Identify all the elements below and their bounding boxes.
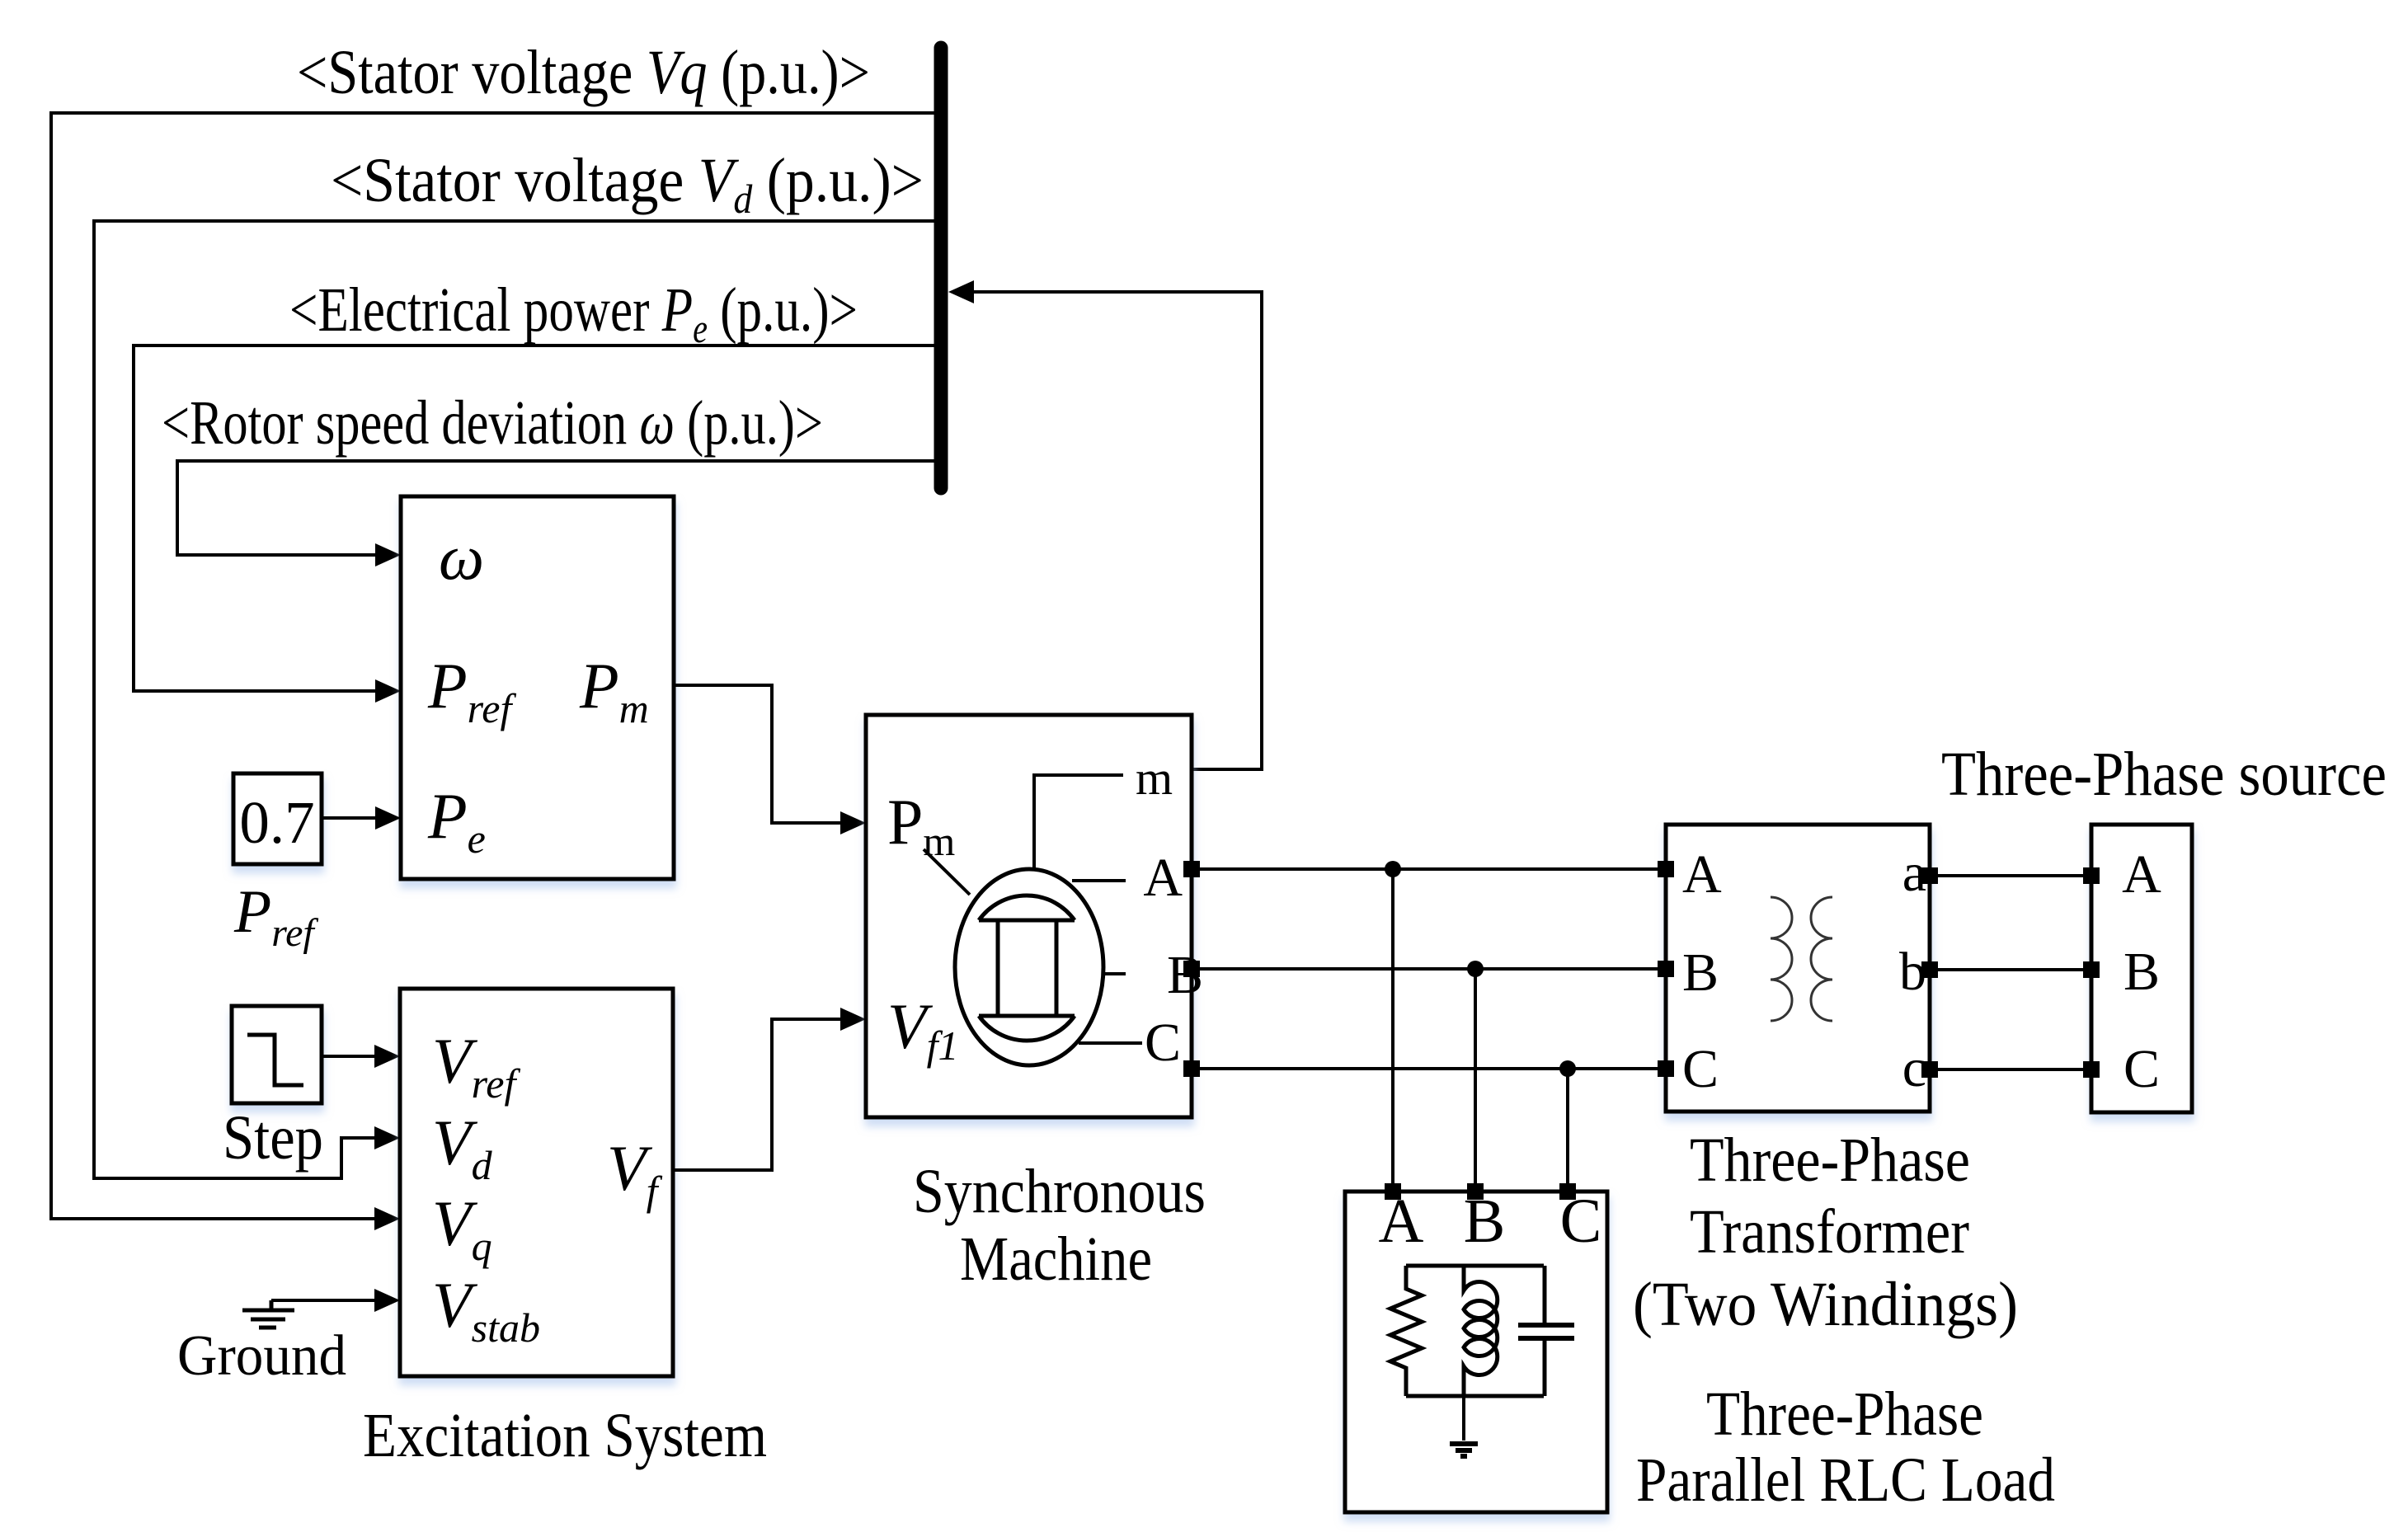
svg-text:Excitation System: Excitation System: [363, 1401, 767, 1470]
arrowhead 0.7 into Pe: [375, 806, 401, 830]
svg-text:Transformer: Transformer: [1690, 1197, 1969, 1267]
ground load symbol: [1450, 1444, 1478, 1456]
svg-text:Synchronous: Synchronous: [913, 1157, 1206, 1226]
svg-text:m: m: [1136, 751, 1173, 805]
svg-text:C: C: [1560, 1187, 1602, 1256]
wire B drop to load: [1474, 969, 1477, 1184]
wire Pe signal: [134, 345, 934, 691]
port square transformer B: [1658, 961, 1674, 977]
port square machine B: [1183, 961, 1200, 977]
resistor R: [1390, 1266, 1422, 1396]
wire Vf to machine Vf1: [673, 1019, 845, 1170]
port square load C: [1559, 1183, 1576, 1200]
synchronous machine block: [866, 715, 1192, 1117]
arrowhead Pm into machine: [840, 811, 866, 834]
wire Vq signal: [51, 113, 934, 1219]
svg-text:Ground: Ground: [177, 1324, 346, 1388]
port square source C: [2083, 1061, 2100, 1078]
port square machine C: [1183, 1060, 1200, 1077]
RLC load block: [1345, 1192, 1607, 1512]
junction C: [1559, 1060, 1576, 1077]
governor block: [401, 496, 674, 879]
svg-text:Three-Phase source: Three-Phase source: [1941, 740, 2387, 809]
svg-text:ω: ω: [439, 521, 484, 593]
svg-text:A: A: [1143, 848, 1183, 908]
svg-text:B: B: [1682, 942, 1719, 1003]
arrowhead Vq into Vq port: [374, 1207, 400, 1230]
port square transformer c: [1921, 1061, 1938, 1078]
svg-text:Parallel RLC Load: Parallel RLC Load: [1636, 1445, 2055, 1515]
wire m feedback to bus: [973, 292, 1262, 769]
port square transformer a: [1921, 867, 1938, 884]
svg-text:A: A: [1682, 844, 1722, 905]
step block: [232, 1006, 322, 1103]
svg-text:(Two Windings): (Two Windings): [1633, 1270, 2018, 1339]
ground symbol: [242, 1300, 294, 1328]
inductor L: [1464, 1266, 1498, 1396]
wire phase A: [1200, 867, 1658, 871]
svg-text:C: C: [2123, 1039, 2160, 1099]
arrowhead Pe into Pref port: [375, 679, 401, 703]
svg-text:B: B: [1464, 1187, 1506, 1256]
port square load A: [1385, 1183, 1401, 1200]
port square transformer b: [1921, 961, 1938, 978]
svg-text:Machine: Machine: [960, 1224, 1152, 1294]
svg-text:Three-Phase: Three-Phase: [1690, 1126, 1970, 1195]
step icon: [247, 1035, 303, 1085]
wire c to source C: [1938, 1068, 2083, 1071]
arrowhead omega into governor: [375, 543, 401, 566]
wire A drop to load: [1391, 869, 1394, 1184]
svg-text:A: A: [2122, 844, 2161, 905]
wire C inside: [1079, 1041, 1142, 1045]
wire Vd signal: [94, 221, 934, 1178]
constant block 0.7: [233, 773, 322, 864]
junction A: [1385, 861, 1401, 877]
arrowhead m into bus: [948, 280, 974, 303]
port square transformer A: [1658, 861, 1674, 877]
wire phase B: [1200, 967, 1658, 971]
port square source A: [2083, 867, 2100, 884]
port square machine A: [1183, 861, 1200, 877]
svg-text:C: C: [1145, 1013, 1181, 1073]
rotor I-beam: [979, 895, 1075, 1041]
svg-text:B: B: [2123, 942, 2160, 1002]
wire ground to Vstab: [271, 1299, 379, 1302]
wire b to source B: [1938, 968, 2083, 971]
excitation system block: [400, 989, 673, 1376]
capacitor C: [1518, 1266, 1574, 1396]
bus bar (mux): [934, 48, 948, 488]
RLC top rail: [1406, 1264, 1544, 1268]
wire m inside machine: [1034, 775, 1123, 869]
wire phase C: [1200, 1067, 1658, 1070]
wire B inside: [1103, 972, 1126, 975]
leader line Pm: [924, 849, 970, 895]
arrowhead Vd into Vd port: [374, 1126, 400, 1149]
wire 0.7 to Pe port: [322, 816, 379, 820]
wire C drop to load: [1566, 1069, 1569, 1184]
svg-text:A: A: [1379, 1187, 1424, 1256]
svg-text:<Rotor speed deviation ω (p.u.: <Rotor speed deviation ω (p.u.)>: [162, 388, 823, 458]
svg-text:Step: Step: [223, 1103, 323, 1173]
wire omega signal: [177, 461, 934, 555]
wire Step to Vref: [322, 1055, 379, 1058]
svg-text:<Stator voltage Vd (p.u.)>: <Stator voltage Vd (p.u.)>: [331, 146, 924, 222]
winding secondary: [1811, 897, 1832, 1021]
wire Pm governor to machine: [674, 685, 845, 823]
svg-text:0.7: 0.7: [239, 789, 314, 856]
svg-text:<Stator voltage Vq (p.u.)>: <Stator voltage Vq (p.u.)>: [297, 38, 870, 107]
port square load B: [1467, 1183, 1484, 1200]
RLC bottom rail: [1406, 1394, 1544, 1398]
source block: [2091, 825, 2192, 1112]
arrowhead Step into Vref: [374, 1045, 400, 1068]
port square source B: [2083, 961, 2100, 978]
machine ellipse: [955, 869, 1103, 1065]
svg-text:C: C: [1682, 1039, 1719, 1099]
transformer block: [1666, 825, 1930, 1112]
ground load stem: [1462, 1396, 1465, 1441]
port square transformer C: [1658, 1060, 1674, 1077]
svg-text:<Electrical power Pe (p.u.)>: <Electrical power Pe (p.u.)>: [289, 275, 858, 351]
wire a to source A: [1938, 874, 2083, 877]
svg-text:Three-Phase: Three-Phase: [1706, 1380, 1983, 1449]
junction B: [1467, 961, 1484, 977]
winding primary: [1771, 897, 1792, 1021]
wire A inside: [1072, 879, 1126, 882]
arrowhead ground into Vstab: [374, 1289, 400, 1312]
arrowhead Vf into machine: [840, 1008, 866, 1031]
